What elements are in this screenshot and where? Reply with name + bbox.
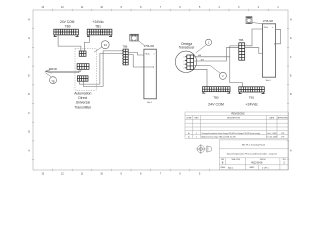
svg-text:Transmitter: Transmitter	[74, 105, 92, 109]
svg-text:Oct 20, 2009: Oct 20, 2009	[267, 136, 277, 139]
terminal strip TB1 (bottom)	[239, 87, 264, 94]
wire TB6 right to module	[245, 29, 263, 46]
svg-text:Direct: Direct	[78, 96, 87, 100]
svg-text:1 OF 1: 1 OF 1	[262, 167, 269, 169]
wire TB6 right to module 2	[245, 48, 263, 54]
svg-text:4: 4	[184, 68, 185, 70]
svg-text:2: 2	[184, 60, 185, 62]
wire TB1 to transmitter power pin 2	[84, 35, 89, 51]
terminal block TB6 (right)	[239, 43, 245, 60]
connector CN3 (transmitter output)	[77, 76, 88, 81]
RTD arrow from field	[45, 69, 81, 73]
svg-text:Added terminal strips TB0 and: Added terminal strips TB0 and TB1 for 24…	[202, 136, 237, 139]
chassis icon (right)	[246, 17, 262, 24]
balloon wire tag lower	[210, 65, 226, 79]
sheet border frame	[33, 10, 288, 170]
svg-text:TB0: TB0	[65, 24, 71, 28]
svg-text:TB0: TB0	[213, 95, 219, 99]
svg-text:1: 1	[184, 57, 185, 59]
wire transducer pin4 down to TB0 bottom	[194, 69, 207, 86]
svg-text:TB6: TB6	[239, 38, 244, 42]
zone letters left	[28, 19, 30, 152]
transducer terminal block	[185, 55, 194, 70]
svg-text:408: 408	[198, 55, 201, 57]
svg-text:TB6: TB6	[123, 44, 128, 48]
wire CN3 to TB6 (pair)	[79, 53, 123, 84]
wire riser to TB6 right and down to TB1	[230, 46, 243, 87]
wire TB6 to module RTN	[128, 55, 153, 67]
svg-text:1756-IF8: 1756-IF8	[263, 19, 274, 23]
svg-text:1: 1	[196, 133, 197, 135]
svg-text:APPROVED: APPROVED	[277, 117, 288, 120]
svg-text:Transducer: Transducer	[178, 46, 195, 50]
transducer circle	[175, 51, 196, 72]
zone letters right	[290, 19, 292, 152]
revisions table	[185, 112, 289, 138]
svg-text:x: x	[154, 54, 155, 56]
svg-text:2: 2	[196, 137, 197, 139]
svg-text:DESCRIPTION: DESCRIPTION	[227, 118, 241, 120]
svg-text:Automation: Automation	[74, 91, 91, 95]
wire CN3 to TB6 second	[83, 51, 123, 87]
third-angle projection symbol	[196, 144, 212, 154]
zone numbers bottom	[42, 174, 201, 176]
zone ticks left/right	[32, 29, 289, 160]
wire TB0 to transmitter power pin 1	[58, 35, 81, 51]
svg-text:Changed transducer from Omega: Changed transducer from Omega PX-609 to …	[202, 132, 261, 135]
svg-text:G: G	[28, 38, 30, 40]
label Automation Direct Universal Transmitter	[74, 91, 92, 109]
svg-text:SHEET: SHEET	[249, 167, 254, 169]
svg-text:RTD #6: RTD #6	[49, 68, 58, 71]
svg-text:24V COM: 24V COM	[60, 20, 75, 24]
svg-text:24V COM: 24V COM	[208, 103, 224, 107]
svg-text:TB1: TB1	[95, 24, 101, 28]
terminal strip TB0 (top)	[54, 29, 79, 36]
wire transducer pin2 to TB6 right	[194, 48, 239, 61]
connector CN2 (RTD input)	[77, 64, 89, 70]
module 1756-IF8 (right)	[262, 24, 275, 77]
svg-text:TB1: TB1	[249, 95, 255, 99]
svg-text:1756-IF8: 1756-IF8	[144, 44, 155, 48]
terminal block TB6 (middle)	[122, 49, 128, 65]
module jumper loop (right side)	[276, 29, 281, 44]
svg-text:None: None	[228, 167, 234, 169]
svg-text:Slot 4: Slot 4	[266, 79, 271, 82]
svg-text:4612-B-08: 4612-B-08	[251, 161, 263, 164]
svg-text:+24Vdc: +24Vdc	[245, 103, 257, 107]
title block	[219, 140, 288, 170]
revision row 1	[188, 132, 285, 135]
zone ticks top/bottom	[53, 9, 269, 171]
chassis icon (middle)	[130, 34, 145, 45]
svg-text:Oct 1, 2009: Oct 1, 2009	[267, 132, 276, 135]
svg-text:REVISIONS: REVISIONS	[231, 113, 244, 116]
svg-text:BIC PLC Training Panel: BIC PLC Training Panel	[242, 144, 266, 147]
svg-text:G: G	[290, 38, 292, 40]
module 1756-IF8 (middle)	[144, 49, 156, 99]
svg-text:TE: TE	[51, 80, 55, 84]
revision table headers	[186, 117, 288, 120]
svg-text:Slot 1: Slot 1	[147, 101, 152, 104]
svg-text:Universal: Universal	[76, 101, 90, 105]
svg-text:409: 409	[201, 60, 204, 62]
connector CN1 (transmitter power)	[79, 51, 86, 56]
wire TB6 to module IN-0+	[128, 53, 144, 56]
svg-text:DATE: DATE	[269, 117, 275, 120]
zone numbers top	[42, 7, 280, 9]
temperature element circle TE	[45, 73, 56, 84]
wire transducer pin1 to riser junction	[194, 56, 230, 58]
revision row 2	[188, 136, 285, 139]
dashed enclosure (transmitter)	[75, 49, 96, 91]
balloon wire tag near TB1	[94, 41, 109, 53]
svg-text:3: 3	[184, 64, 185, 66]
svg-text:Input Temperature Processed/Tr: Input Temperature Processed/Transmitter …	[227, 153, 278, 156]
svg-text:x: x	[272, 27, 273, 29]
terminal strip TB1 (top)	[87, 29, 112, 36]
wire transducer pin3 with tag	[194, 64, 210, 66]
terminal strip TB0 (bottom)	[203, 87, 231, 94]
balloon tag for transducer	[196, 39, 212, 53]
svg-text:ZONE: ZONE	[186, 118, 192, 120]
